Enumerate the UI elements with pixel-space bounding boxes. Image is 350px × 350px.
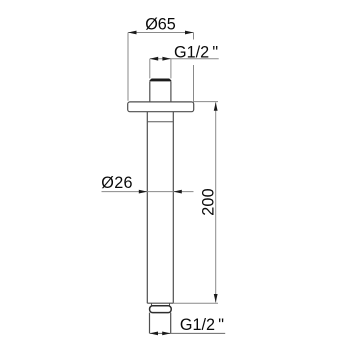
svg-text:Ø65: Ø65 bbox=[145, 16, 176, 34]
svg-text:Ø26: Ø26 bbox=[101, 174, 133, 192]
extension line top of 200 bbox=[193, 101, 218, 103]
dimension line 200 bbox=[215, 102, 217, 302]
extension line right of Ø65 (interrupted by text) bbox=[193, 33, 195, 103]
nipple body (top G1/2 thread) bbox=[150, 82, 171, 102]
bottom neck bbox=[152, 303, 170, 306]
arrowheads G1/2 top bbox=[150, 57, 171, 61]
collar ring bbox=[150, 306, 172, 313]
arrowheads Ø65 bbox=[128, 31, 194, 35]
dimension line Ø65 bbox=[128, 32, 194, 34]
arrowheads G1/2 bottom bbox=[150, 332, 171, 336]
dimension line G1/2 bottom bbox=[150, 332, 226, 334]
pipe bbox=[147, 112, 173, 304]
extension line bottom of 200 bbox=[173, 302, 218, 304]
arrowheads Ø26 bbox=[139, 190, 182, 194]
pipe bottom edge bbox=[147, 302, 173, 304]
thread top band (nipple crest) bbox=[150, 79, 172, 82]
dimension line G1/2 top bbox=[150, 58, 219, 60]
arrowheads 200 bbox=[214, 102, 218, 302]
extension line left of Ø65 bbox=[127, 33, 129, 101]
ceiling flange bbox=[128, 102, 194, 112]
pipe joint line bbox=[147, 121, 173, 123]
svg-text:G1/2 ": G1/2 " bbox=[180, 316, 224, 334]
bottom thread stub bbox=[150, 313, 171, 334]
dimension line Ø26 bbox=[102, 191, 194, 193]
svg-text:200: 200 bbox=[199, 188, 217, 216]
extension lines of top thread bbox=[150, 59, 171, 78]
